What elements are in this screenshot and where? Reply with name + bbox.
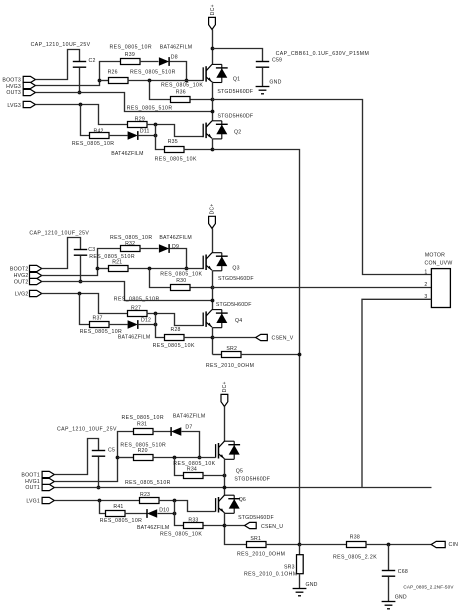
port LVG2 bbox=[30, 290, 42, 296]
junction HVG2 / R21 feed bbox=[96, 267, 100, 271]
wire to CSEN_V port bbox=[213, 337, 256, 339]
junction D9 / gate wire bbox=[185, 267, 189, 271]
wire SR1 to DC- bus bbox=[266, 544, 300, 546]
port CIN bbox=[431, 541, 445, 547]
transistor Q2 STGD5H60DF bbox=[203, 121, 228, 139]
junction Q2 emitter / R35 bbox=[211, 148, 215, 152]
resistor R32 bbox=[121, 246, 141, 252]
junction emitter rail / R34 bbox=[223, 474, 227, 478]
resistor R42 bbox=[90, 133, 110, 139]
svg-text:R37: R37 bbox=[93, 315, 103, 321]
svg-text:D12: D12 bbox=[141, 318, 151, 324]
resistor R37 bbox=[90, 322, 110, 328]
svg-text:D11: D11 bbox=[140, 129, 150, 135]
diode D11 BAT46ZFILM bbox=[128, 131, 138, 140]
svg-text:RES_2010_0.1OHM: RES_2010_0.1OHM bbox=[244, 571, 298, 577]
resistor R35 bbox=[165, 147, 185, 153]
resistor R27 bbox=[128, 311, 148, 317]
transistor Q3 STGD5H60DF bbox=[203, 253, 228, 271]
svg-text:RES_0805_10R: RES_0805_10R bbox=[110, 45, 153, 51]
resistor R33 bbox=[184, 523, 204, 529]
svg-text:RES_0805_10K: RES_0805_10K bbox=[160, 531, 202, 537]
junction C3 / OUT2 bbox=[79, 280, 83, 284]
svg-text:STGD5H60DF: STGD5H60DF bbox=[217, 89, 253, 95]
svg-text:R39: R39 bbox=[125, 52, 135, 58]
svg-text:RES_0805_10K: RES_0805_10K bbox=[155, 156, 197, 162]
wire LVG3 down to R42 bbox=[81, 105, 90, 136]
svg-text:RES_0805_510R: RES_0805_510R bbox=[130, 70, 176, 76]
resistor R31 bbox=[134, 429, 154, 435]
power terminal DC+ (phase 3) bbox=[209, 17, 216, 29]
svg-text:1: 1 bbox=[424, 270, 427, 276]
svg-text:D9: D9 bbox=[172, 244, 179, 250]
svg-text:R34: R34 bbox=[187, 467, 197, 473]
wire C3 bottom to OUT2 net bbox=[80, 256, 82, 282]
svg-text:OUT1: OUT1 bbox=[25, 485, 40, 491]
resistor SR3 (shunt) bbox=[297, 555, 304, 574]
wire R32 to D9 bbox=[140, 248, 159, 250]
wire C59 to ground bbox=[262, 68, 264, 87]
resistor R41 bbox=[106, 511, 126, 517]
transistor Q5 STGD5H60DF bbox=[216, 441, 241, 459]
power terminal DC+ (phase 2) bbox=[209, 216, 216, 228]
svg-text:Q5: Q5 bbox=[236, 469, 243, 475]
wire R28 to emitter rail bbox=[184, 337, 213, 339]
wire R33 to emitter rail bbox=[204, 525, 225, 527]
wire Q4 emitter down to SR2 row bbox=[212, 328, 214, 355]
wire LVG2 down to R37 bbox=[80, 294, 90, 325]
connector CON_UVW body bbox=[431, 269, 450, 308]
svg-text:DC+: DC+ bbox=[222, 381, 228, 392]
svg-text:Q2: Q2 bbox=[234, 130, 241, 136]
wire R29 to Q2 gate bbox=[147, 125, 204, 137]
svg-text:C5: C5 bbox=[108, 448, 115, 454]
wire SR3 to ground bbox=[299, 574, 301, 589]
svg-text:C59: C59 bbox=[272, 58, 282, 64]
wire D8 down to gate node bbox=[170, 62, 187, 81]
svg-text:R20: R20 bbox=[138, 448, 148, 454]
junction emitter rail / motor line bbox=[211, 98, 215, 102]
svg-text:D8: D8 bbox=[171, 55, 178, 61]
capacitor C2 bbox=[73, 62, 86, 68]
resistor R29 bbox=[128, 122, 148, 128]
svg-text:LVG3: LVG3 bbox=[7, 103, 21, 109]
port BOOT2 bbox=[30, 265, 42, 271]
svg-text:R42: R42 bbox=[94, 128, 104, 134]
svg-text:Q3: Q3 bbox=[232, 266, 239, 272]
junction OUT1 / rail bbox=[223, 486, 227, 490]
svg-text:RES_0805_510R: RES_0805_510R bbox=[89, 254, 135, 260]
port HVG2 bbox=[30, 272, 42, 278]
junction OUT3 / rail bbox=[211, 110, 215, 114]
svg-text:HVG2: HVG2 bbox=[14, 273, 29, 279]
wire to R20 bbox=[118, 457, 134, 459]
wire LVG2 to R27 bbox=[42, 294, 128, 314]
wire BOOT2 to C3 top bbox=[42, 238, 81, 269]
junction D10 / gate-node vertical bbox=[173, 512, 177, 516]
wire gate node down to R34 bbox=[175, 458, 184, 476]
wire pin 3 stub to phase1 midpoint bbox=[362, 299, 431, 487]
ground (SR3) bbox=[293, 589, 307, 596]
svg-text:R21: R21 bbox=[112, 260, 122, 266]
diode D10 BAT46ZFILM bbox=[147, 509, 157, 518]
wire R35 to emitter rail bbox=[184, 149, 213, 151]
junction R38 / C68 bbox=[387, 543, 391, 547]
wire gate node down to R35 bbox=[156, 125, 165, 150]
junction R27 out / pulldown branch bbox=[154, 312, 158, 316]
svg-text:CIN: CIN bbox=[449, 542, 459, 548]
capacitor C59 bbox=[256, 62, 269, 68]
transistor Q6 STGD5H60DF bbox=[216, 495, 241, 513]
wire R21 to Q3 gate bbox=[128, 268, 204, 270]
wire D9 down to gate node bbox=[170, 249, 187, 269]
svg-text:C68: C68 bbox=[398, 569, 408, 575]
wire R38 to CIN bbox=[366, 544, 432, 546]
wire down to C68 bbox=[388, 545, 390, 571]
capacitor C5 bbox=[92, 451, 105, 457]
junction LVG2 / R37 branch bbox=[78, 292, 82, 296]
svg-text:OUT3: OUT3 bbox=[6, 90, 21, 96]
svg-text:C2: C2 bbox=[89, 58, 96, 64]
wire to CSEN_U port bbox=[225, 525, 245, 527]
wire R27 to Q4 gate bbox=[147, 314, 204, 326]
wire OUT2 to midpoint bbox=[42, 282, 213, 301]
svg-text:BAT46ZFILM: BAT46ZFILM bbox=[159, 235, 191, 241]
junction D12 / gate-node vertical bbox=[154, 323, 158, 327]
wire R37 to D12 bbox=[109, 324, 128, 326]
transistor Q4 STGD5H60DF bbox=[203, 310, 228, 328]
wire gate node down to R33 bbox=[175, 501, 184, 526]
svg-text:R26: R26 bbox=[108, 70, 118, 76]
wire Q6 emitter down to SR1 bbox=[225, 513, 247, 545]
svg-text:R27: R27 bbox=[131, 306, 141, 312]
svg-text:RES_0805_10R: RES_0805_10R bbox=[100, 518, 143, 524]
svg-text:SR3: SR3 bbox=[284, 565, 295, 571]
svg-text:HVG1: HVG1 bbox=[25, 479, 40, 485]
resistor R28 bbox=[165, 335, 185, 341]
resistor R34 bbox=[184, 473, 204, 479]
svg-text:R33: R33 bbox=[188, 518, 198, 524]
wire D11 to gate node bbox=[138, 135, 156, 137]
svg-text:RES_0805_510R: RES_0805_510R bbox=[127, 106, 173, 112]
junction C5 / OUT1 bbox=[97, 486, 101, 490]
svg-text:SR2: SR2 bbox=[226, 346, 237, 352]
junction gate node / R36 tap bbox=[148, 79, 152, 83]
ground (C68) bbox=[382, 602, 396, 609]
resistor R20 bbox=[134, 455, 154, 461]
wire phase2 midpoint to connector pin 2 bbox=[213, 287, 432, 289]
resistor R39 bbox=[121, 59, 141, 65]
port OUT3 bbox=[23, 89, 35, 95]
junction R23 out / pulldown branch bbox=[173, 499, 177, 503]
svg-text:BAT46ZFILM: BAT46ZFILM bbox=[118, 335, 150, 341]
capacitor C68 bbox=[382, 571, 395, 577]
svg-text:R38: R38 bbox=[350, 535, 360, 541]
wire to C59 bbox=[213, 49, 263, 62]
wire to R26 bbox=[100, 80, 109, 82]
wire Q2 emitter down bbox=[212, 139, 214, 150]
wire gate node down to R30 bbox=[150, 269, 171, 288]
wire Q3 emitter to Q4 collector bbox=[212, 271, 214, 310]
svg-text:STGD5H60DF: STGD5H60DF bbox=[218, 114, 254, 120]
wire R26 to Q1 gate bbox=[128, 80, 204, 82]
wire phase3 midpoint to connector pin 1 bbox=[213, 100, 432, 275]
port HVG1 bbox=[42, 478, 54, 484]
ground (C59) bbox=[256, 87, 270, 94]
wire bus to R38 bbox=[300, 544, 347, 546]
svg-text:CAP_CBB61_0.1UF_630V_P15MM: CAP_CBB61_0.1UF_630V_P15MM bbox=[276, 51, 370, 57]
svg-text:RES_0805_510R: RES_0805_510R bbox=[125, 480, 171, 486]
wire phase3 low side to DC- bus bbox=[213, 150, 300, 545]
wire to SR2 bbox=[213, 354, 222, 356]
wire C68 to ground bbox=[388, 577, 390, 602]
wire R41 to D10 bbox=[125, 513, 148, 515]
wire LVG1 to R23 bbox=[55, 500, 140, 502]
svg-text:STGD5H60DF: STGD5H60DF bbox=[218, 276, 254, 282]
junction D7 / gate wire bbox=[198, 456, 202, 460]
svg-text:SR1: SR1 bbox=[250, 536, 261, 542]
svg-text:LVG2: LVG2 bbox=[15, 292, 29, 298]
port CSEN_V bbox=[256, 334, 268, 340]
svg-text:RES_0805_10K: RES_0805_10K bbox=[153, 343, 195, 349]
wire R23 to Q6 gate bbox=[159, 501, 216, 512]
svg-text:2: 2 bbox=[424, 282, 427, 288]
wire down to SR3 bbox=[299, 545, 301, 555]
port OUT2 bbox=[30, 278, 42, 284]
svg-text:CAP_0805_2.2NF-50V: CAP_0805_2.2NF-50V bbox=[403, 585, 454, 590]
svg-text:R23: R23 bbox=[140, 492, 150, 498]
junction R29 out / pulldown branch bbox=[154, 123, 158, 127]
svg-text:RES_0805_10K: RES_0805_10K bbox=[160, 272, 202, 278]
diode D9 BAT46ZFILM bbox=[159, 244, 169, 253]
svg-text:R35: R35 bbox=[168, 139, 178, 145]
svg-text:BAT46ZFILM: BAT46ZFILM bbox=[111, 151, 143, 157]
svg-text:R29: R29 bbox=[135, 117, 145, 123]
junction HVG1 / R20 feed bbox=[116, 456, 120, 460]
wire HVG2 up to R32 bbox=[42, 249, 121, 276]
junction Q6 emitter / R33 / CSEN_U bbox=[223, 524, 227, 528]
svg-text:DC+: DC+ bbox=[210, 4, 216, 15]
wire R30 to emitter rail bbox=[191, 287, 213, 289]
junction gate node / R34 tap bbox=[173, 456, 177, 460]
junction LVG1 / R41 branch bbox=[98, 499, 102, 503]
port BOOT1 bbox=[42, 471, 54, 477]
svg-text:D7: D7 bbox=[185, 425, 192, 431]
resistor R23 bbox=[140, 498, 160, 504]
svg-text:D10: D10 bbox=[159, 508, 169, 514]
svg-text:STGD5H60DF: STGD5H60DF bbox=[234, 477, 270, 483]
junction SR1 / DC- bus / SR3 bbox=[298, 543, 302, 547]
svg-text:STGD5H60DF: STGD5H60DF bbox=[216, 302, 252, 308]
resistor R21 bbox=[109, 266, 129, 272]
resistor R38 bbox=[347, 542, 367, 548]
wire DC+ to Q1 collector bbox=[212, 30, 214, 65]
port OUT1 bbox=[42, 484, 54, 490]
svg-text:RES_0805_10K: RES_0805_10K bbox=[161, 83, 203, 89]
svg-text:Q1: Q1 bbox=[233, 77, 240, 83]
svg-text:BAT46ZFILM: BAT46ZFILM bbox=[137, 525, 169, 531]
diode D12 BAT46ZFILM bbox=[128, 320, 138, 329]
port LVG1 bbox=[42, 497, 54, 503]
junction emitter rail / motor line phase2 bbox=[211, 286, 215, 290]
wire Q1 emitter to Q2 collector bbox=[212, 82, 214, 121]
junction Q4 emitter / R28 / CSEN_V bbox=[211, 336, 215, 340]
svg-text:OUT2: OUT2 bbox=[14, 280, 29, 286]
wire R31 to D7 bbox=[153, 431, 172, 433]
svg-text:STGD5H60DF: STGD5H60DF bbox=[238, 515, 274, 521]
junction OUT2 / rail bbox=[211, 299, 215, 303]
svg-text:RES_0805_10R: RES_0805_10R bbox=[72, 141, 115, 147]
junction D11 / gate-node vertical bbox=[154, 134, 158, 138]
resistor SR1 bbox=[247, 542, 267, 548]
svg-text:RES_0805_510R: RES_0805_510R bbox=[114, 296, 160, 302]
svg-text:CSEN_U: CSEN_U bbox=[261, 524, 283, 530]
wire BOOT1 to C5 top bbox=[55, 439, 99, 475]
wire C2 bottom to OUT3 net bbox=[79, 68, 81, 93]
svg-text:C3: C3 bbox=[88, 247, 95, 253]
svg-text:GND: GND bbox=[306, 582, 318, 588]
svg-text:LVG1: LVG1 bbox=[26, 499, 40, 505]
svg-text:HVG3: HVG3 bbox=[6, 84, 21, 90]
wire LVG1 down to R41 bbox=[100, 501, 106, 514]
port LVG3 bbox=[23, 101, 35, 107]
wire R42 to D11 bbox=[109, 135, 128, 137]
diode D7 BAT46ZFILM bbox=[171, 427, 181, 436]
wire R34 to emitter rail bbox=[203, 475, 225, 477]
svg-text:RES_0805_2.2K: RES_0805_2.2K bbox=[333, 555, 377, 561]
diode D8 BAT46ZFILM bbox=[159, 57, 169, 66]
svg-text:BOOT3: BOOT3 bbox=[2, 78, 21, 84]
svg-text:BAT46ZFILM: BAT46ZFILM bbox=[173, 414, 205, 420]
svg-text:CSEN_V: CSEN_V bbox=[272, 335, 294, 341]
svg-text:BOOT1: BOOT1 bbox=[21, 473, 40, 479]
port BOOT3 bbox=[23, 76, 35, 82]
svg-text:CAP_1210_10UF_25V: CAP_1210_10UF_25V bbox=[57, 427, 117, 433]
wire gate node down to R28 bbox=[156, 314, 165, 338]
junction gate node / R30 tap bbox=[148, 267, 152, 271]
svg-text:R31: R31 bbox=[137, 422, 147, 428]
svg-text:CAP_1210_10UF_25V: CAP_1210_10UF_25V bbox=[29, 230, 89, 236]
svg-text:BAT46ZFILM: BAT46ZFILM bbox=[160, 45, 192, 51]
junction HVG3 / R26 feed bbox=[98, 79, 102, 83]
svg-text:R36: R36 bbox=[176, 90, 186, 96]
port HVG3 bbox=[23, 82, 35, 88]
svg-text:R30: R30 bbox=[176, 278, 186, 284]
wire OUT1 to midpoint and connector pin 3 bbox=[55, 487, 432, 489]
junction LVG3 / R42 branch bbox=[79, 103, 83, 107]
junction C2 / OUT3 bbox=[78, 91, 82, 95]
junction SR2 / DC- bus bbox=[298, 353, 302, 357]
svg-text:CAP_1210_10UF_25V: CAP_1210_10UF_25V bbox=[31, 42, 91, 48]
svg-text:R41: R41 bbox=[113, 504, 123, 510]
capacitor C3 bbox=[74, 250, 87, 256]
wire SR2 to DC- bus bbox=[241, 354, 300, 356]
resistor R26 bbox=[109, 78, 129, 84]
svg-text:GND: GND bbox=[269, 80, 281, 86]
wire DC+ to Q3 collector bbox=[212, 229, 214, 253]
svg-text:CON_UVW: CON_UVW bbox=[425, 260, 453, 266]
transistor Q1 STGD5H60DF bbox=[203, 64, 228, 82]
resistor R36 bbox=[171, 97, 191, 103]
junction DC+ / C59 branch bbox=[211, 47, 215, 51]
svg-text:DC+: DC+ bbox=[210, 203, 216, 214]
wire D10 to gate-node vertical bbox=[158, 513, 175, 515]
wire R20 to Q5 gate bbox=[153, 457, 216, 459]
svg-text:GND: GND bbox=[395, 594, 407, 600]
svg-text:BOOT2: BOOT2 bbox=[10, 266, 29, 272]
wire C5 bottom to OUT1 net bbox=[98, 457, 100, 488]
wire OUT3 to midpoint bbox=[36, 93, 213, 112]
resistor R30 bbox=[171, 285, 191, 291]
wire gate node down to R36 bbox=[150, 81, 171, 100]
svg-text:Q6: Q6 bbox=[239, 497, 246, 503]
junction D8 / gate wire bbox=[185, 79, 189, 83]
wire R39 to D8 bbox=[140, 61, 159, 63]
svg-text:RES_2010_0OHM: RES_2010_0OHM bbox=[237, 552, 285, 558]
wire D7 down to gate node bbox=[182, 432, 200, 458]
wire HVG3 up to R39 bbox=[36, 62, 121, 86]
wire LVG3 to R29 bbox=[36, 105, 128, 125]
wire to R21 bbox=[98, 268, 109, 270]
wire R36 to emitter rail bbox=[191, 99, 213, 101]
resistor SR2 bbox=[222, 352, 242, 358]
wire BOOT3 to C2 top bbox=[36, 50, 80, 80]
svg-text:RES_0805_10R: RES_0805_10R bbox=[80, 329, 123, 335]
svg-text:RES_0805_10R: RES_0805_10R bbox=[122, 415, 165, 421]
svg-text:RES_2010_0OHM: RES_2010_0OHM bbox=[206, 363, 254, 369]
svg-text:MOTOR: MOTOR bbox=[425, 253, 445, 259]
power terminal DC+ (phase 1) bbox=[221, 394, 228, 406]
svg-text:R28: R28 bbox=[171, 327, 181, 333]
svg-text:Q4: Q4 bbox=[235, 318, 242, 324]
wire Q5 emitter to Q6 collector bbox=[224, 459, 226, 496]
wire DC+ to Q5 collector bbox=[224, 407, 226, 442]
svg-text:R32: R32 bbox=[125, 241, 135, 247]
port CSEN_U bbox=[245, 522, 257, 528]
wire D12 to gate node bbox=[138, 324, 156, 326]
wire HVG1 up to R31 bbox=[55, 432, 134, 482]
